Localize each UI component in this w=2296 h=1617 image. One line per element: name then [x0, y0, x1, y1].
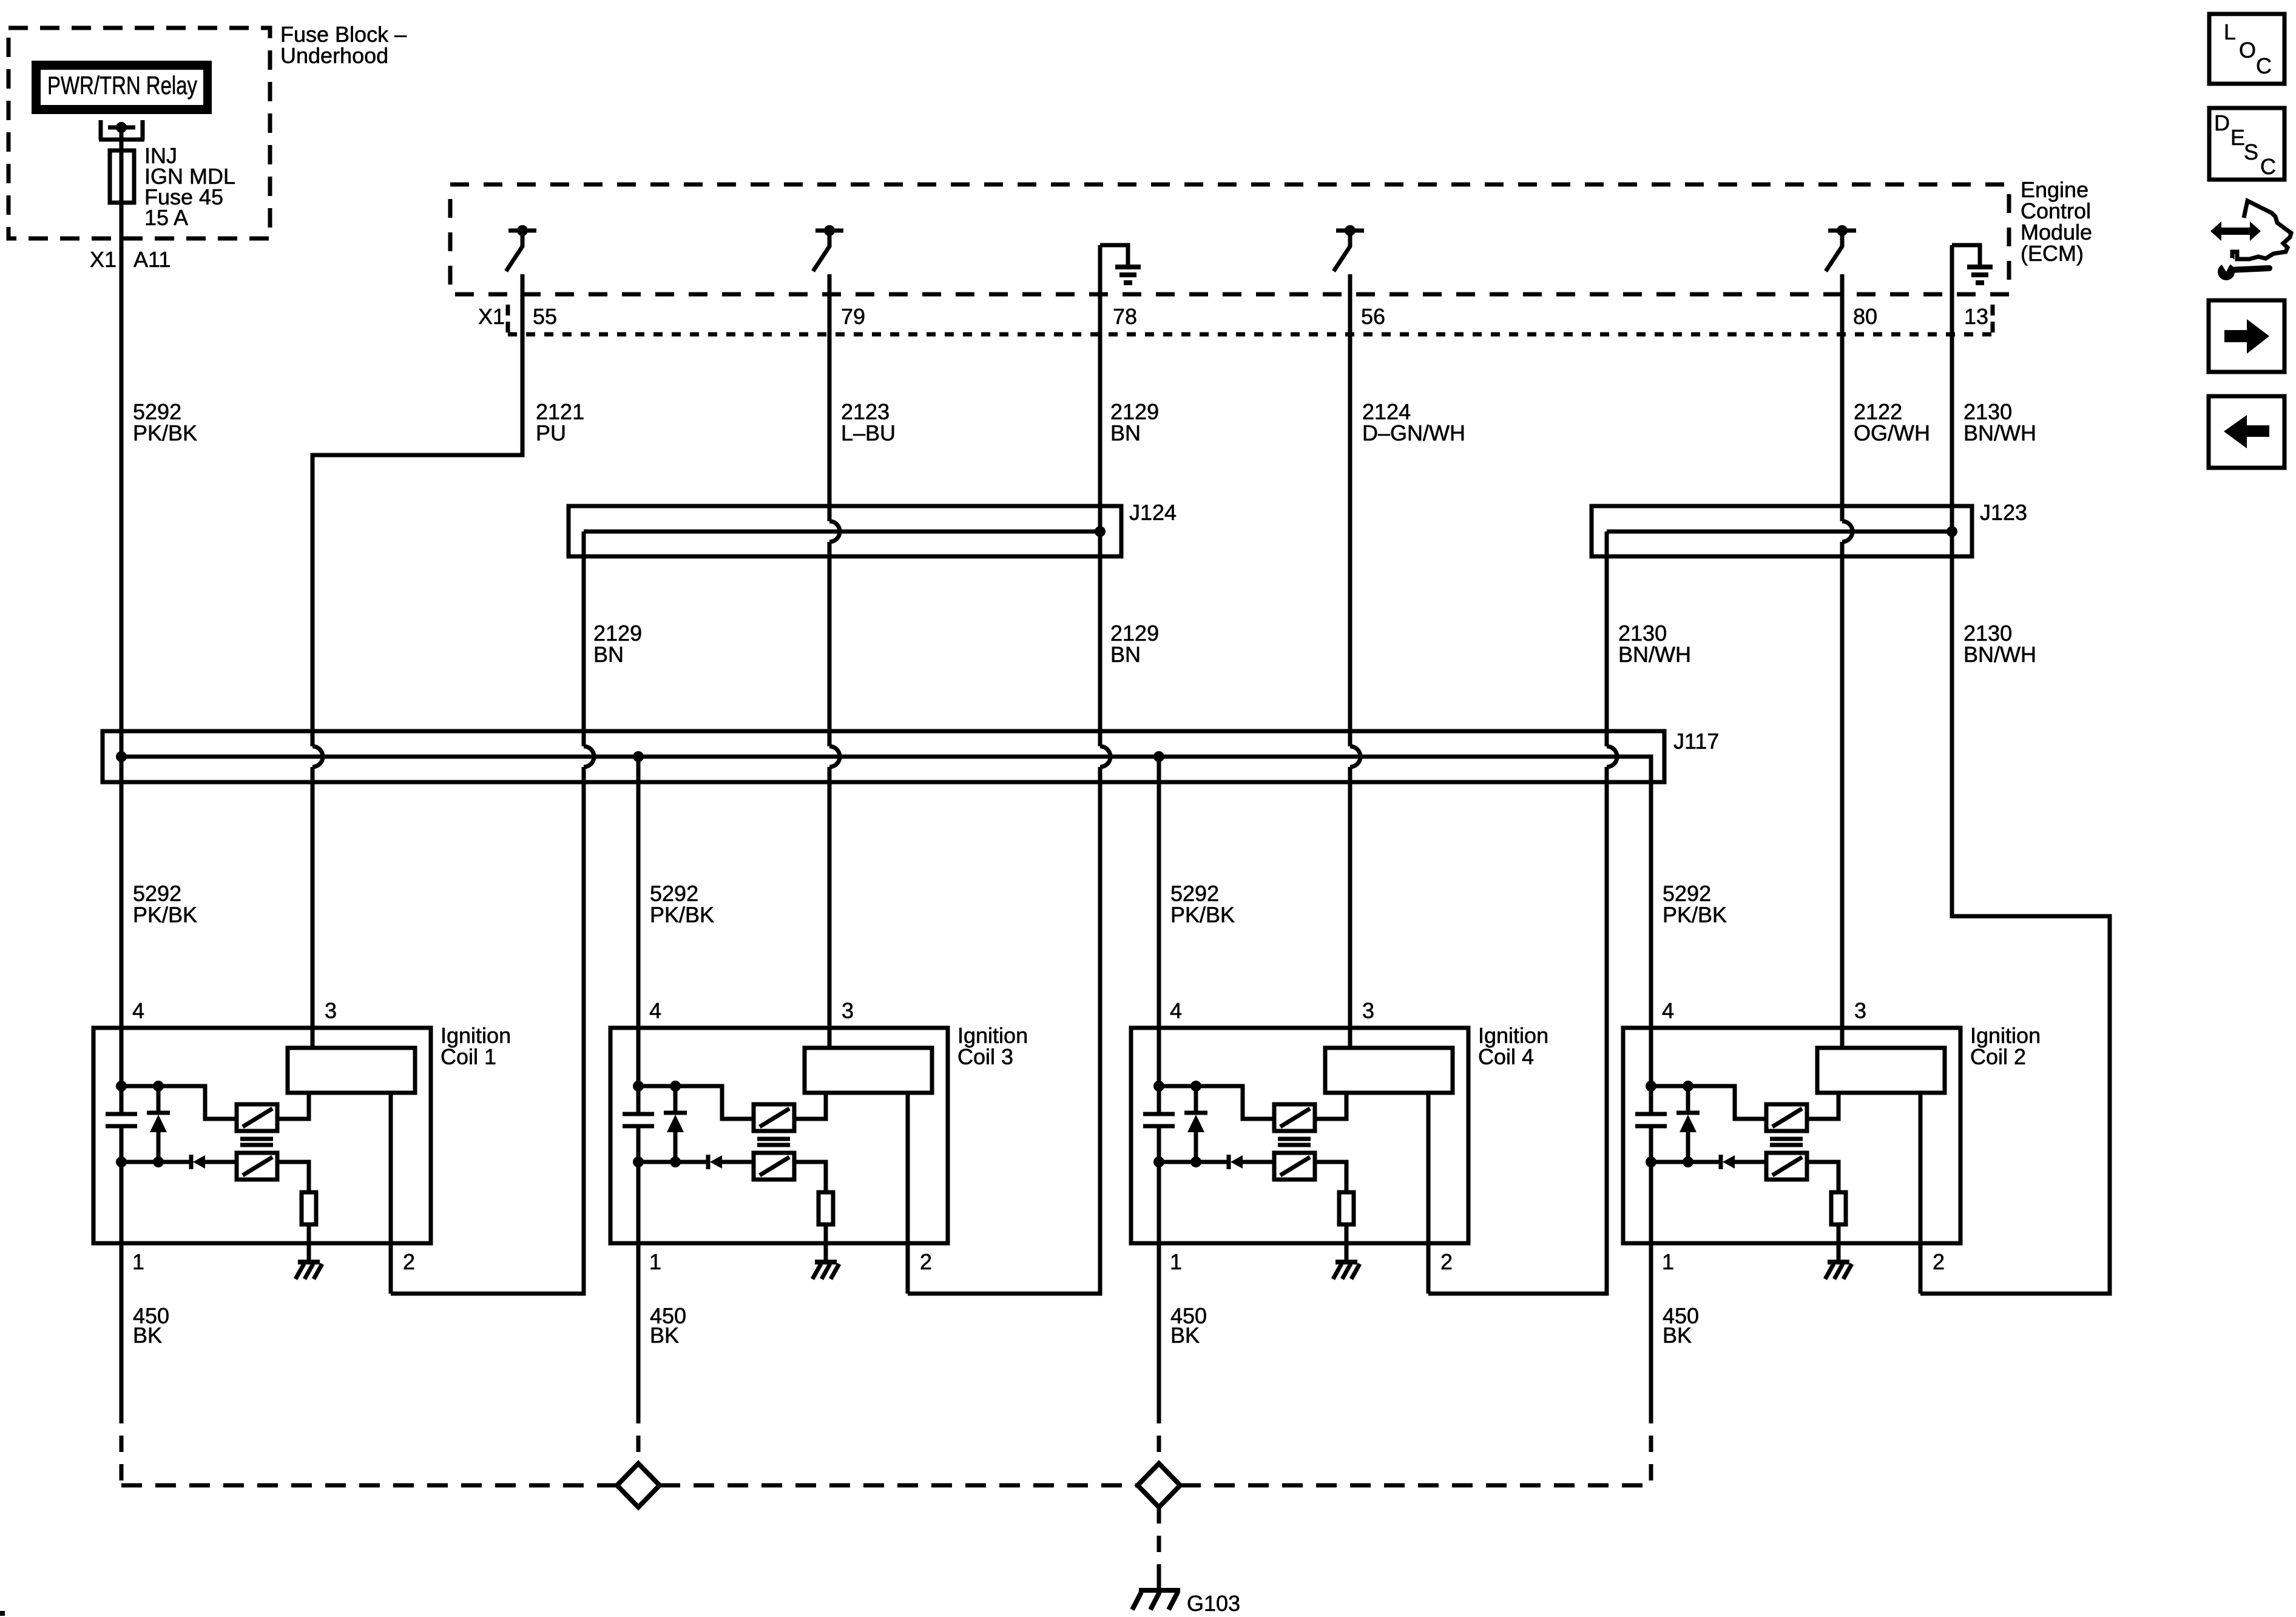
relay contact bar: [108, 126, 135, 130]
svg-text:(ECM): (ECM): [2021, 241, 2084, 266]
svg-text:L: L: [2224, 19, 2236, 44]
coil3 450 BK dashed drop: [636, 1407, 641, 1464]
svg-text:79: 79: [841, 304, 865, 329]
driver switch pin 79: [813, 225, 843, 271]
svg-text:Coil 2: Coil 2: [1970, 1044, 2026, 1069]
svg-text:C: C: [2260, 154, 2276, 179]
wire 2130 BN/WH: J123 to coil4 pin2: [1605, 532, 1609, 746]
driver switch pin 56: [1334, 225, 1364, 271]
junction dot J117 coil1 feed: [116, 751, 127, 762]
svg-text:80: 80: [1853, 304, 1877, 329]
ignition coil 1: [93, 881, 431, 1407]
svg-text:G103: G103: [1187, 1591, 1240, 1616]
relay output terminal bracket: [99, 120, 144, 140]
svg-text:A11: A11: [133, 247, 171, 272]
svg-text:X1: X1: [478, 304, 505, 329]
ECM ground at pin 78: [1100, 245, 1141, 283]
wire 5292 to coil3 pin4: [636, 757, 641, 1028]
junction dot J124 pin78: [1095, 526, 1106, 537]
svg-text:OG/WH: OG/WH: [1854, 420, 1930, 445]
svg-text:BN/WH: BN/WH: [1963, 420, 2036, 445]
J124 internal bus wire: [584, 530, 1100, 534]
ECM connector dotted line X1: [508, 333, 1993, 337]
LOC icon box: [2209, 14, 2284, 84]
junction dot J123 pin13: [1947, 526, 1957, 537]
svg-text:J117: J117: [1673, 729, 1719, 754]
svg-text:J123: J123: [1980, 500, 2027, 525]
coil1 450 BK dashed drop: [120, 1407, 124, 1485]
splice pack J124 box: [569, 506, 1121, 556]
svg-text:O: O: [2239, 38, 2256, 62]
wire 2130 BN/WH: pin 13 through J123 then jog to coil2 pin2: [1920, 245, 2110, 1294]
connector bracket right: [1991, 305, 1995, 334]
ECM dashed box: [450, 184, 2009, 294]
ignition coil 4: [1131, 881, 1468, 1407]
wire 5292 PK/BK: fuse to coil1 pin4: [120, 204, 124, 1028]
junction dot J117 coil3 feed: [633, 751, 644, 762]
svg-text:BN/WH: BN/WH: [1963, 642, 2036, 667]
svg-text:PK/BK: PK/BK: [133, 420, 197, 445]
wire 5292 to coil4 pin4: [1157, 757, 1161, 1028]
svg-text:13: 13: [1964, 304, 1988, 329]
svg-text:78: 78: [1113, 304, 1137, 329]
svg-text:Coil 1: Coil 1: [441, 1044, 496, 1069]
ground bus dashed segment 2: [660, 1484, 1138, 1488]
ignition coil 2: [1623, 881, 1960, 1407]
svg-text:Underhood: Underhood: [280, 43, 388, 68]
svg-text:E: E: [2230, 125, 2245, 150]
dashed drop to G103: [1157, 1507, 1161, 1585]
wire 2123 L-BU: pin 79 to coil3 pin3: [828, 274, 832, 521]
coil4 450 BK dashed drop: [1157, 1407, 1161, 1464]
wire 2122 OG/WH: pin 80 to coil2 pin3: [1840, 274, 1845, 521]
driver switch pin 80: [1826, 225, 1856, 271]
svg-text:55: 55: [533, 304, 557, 329]
svg-text:BN/WH: BN/WH: [1618, 642, 1691, 667]
ground bus dashed segment 3: [1180, 1484, 1651, 1488]
splice diamond at coil4 drop: [1138, 1463, 1180, 1507]
ground bus dashed segment 1: [121, 1484, 617, 1488]
svg-text:BN: BN: [1110, 420, 1141, 445]
splice pack J123 box: [1592, 506, 1972, 556]
splice pack J117 box: [103, 731, 1664, 782]
node at relay terminal: [116, 122, 127, 133]
J117 internal bus wire to coil2 pin4: [121, 757, 1651, 1028]
wire 2129 BN: pin 78 down through J124 to coil3 pin2: [1098, 245, 1102, 746]
driver switch pin 55: [506, 225, 536, 271]
wire 2124 D-GN/WH: pin 56 to coil4 pin3: [1348, 274, 1352, 746]
fuse INJ IGN MDL Fuse 45 15A: [110, 150, 134, 203]
wire relay to fuse: [120, 127, 124, 149]
ignition coil 3: [610, 881, 948, 1407]
forward arrow icon box: [2209, 300, 2284, 372]
back arrow icon box: [2209, 396, 2284, 468]
svg-text:D–GN/WH: D–GN/WH: [1362, 420, 1465, 445]
page corner mark: [0, 1611, 5, 1616]
coil2 450 BK dashed drop: [1649, 1407, 1653, 1485]
svg-text:Coil 4: Coil 4: [1478, 1044, 1534, 1069]
ECM ground at pin 13: [1952, 245, 1993, 283]
svg-text:BN: BN: [593, 642, 624, 667]
svg-text:BN: BN: [1110, 642, 1141, 667]
svg-text:X1: X1: [90, 247, 116, 272]
connector bracket left: [506, 305, 510, 334]
svg-text:L–BU: L–BU: [841, 420, 896, 445]
junction dot J117 coil4 feed: [1153, 751, 1164, 762]
svg-text:PWR/TRN Relay: PWR/TRN Relay: [47, 71, 197, 100]
svg-text:Coil 3: Coil 3: [957, 1044, 1013, 1069]
svg-text:S: S: [2244, 140, 2258, 164]
svg-text:PU: PU: [536, 420, 566, 445]
svg-text:D: D: [2214, 110, 2230, 135]
J123 internal bus wire: [1607, 530, 1952, 534]
svg-text:J124: J124: [1129, 500, 1177, 525]
ground G103: [1157, 1581, 1161, 1588]
svg-text:56: 56: [1361, 304, 1385, 329]
fuse block dashed box: [8, 28, 270, 238]
PWR/TRN relay box: [32, 61, 212, 114]
car diagnostic icon: [2210, 201, 2291, 280]
splice diamond at coil3 drop: [617, 1463, 660, 1507]
svg-text:15 A: 15 A: [144, 205, 188, 230]
DESC icon box: [2209, 108, 2284, 180]
wire 2121 PU: pin 55 to coil1 pin3: [312, 274, 522, 746]
svg-text:C: C: [2256, 53, 2272, 78]
wire 2129 BN: J124 to coil1 pin2: [582, 532, 586, 746]
